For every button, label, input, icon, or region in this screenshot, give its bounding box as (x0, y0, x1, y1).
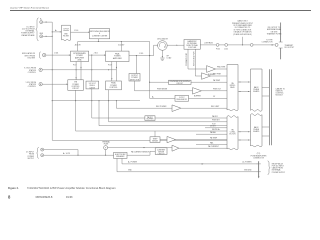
wire route rev line (116, 101, 172, 109)
wire circulator to load (161, 50, 163, 56)
wire route pcv line (92, 101, 145, 118)
PA interface connector upper (227, 65, 238, 111)
svg-text:PA CURRENT: PA CURRENT (208, 145, 219, 148)
svg-text:68P81085E35-B: 68P81085E35-B (36, 197, 53, 199)
svg-text:AMPLIFIER: AMPLIFIER (113, 57, 123, 60)
svg-text:CONTROL: CONTROL (109, 87, 117, 89)
svg-text:DETECTOR: DETECTOR (130, 79, 140, 81)
connector 9.3V (39, 68, 42, 71)
svg-text:POWER SUPPLY: POWER SUPPLY (272, 172, 286, 174)
svg-text:ECTOR: ECTOR (230, 134, 237, 136)
temperature sense (150, 81, 169, 83)
wire circulator to coupler (167, 44, 184, 46)
junction (52, 31, 53, 32)
svg-text:COUPLER: COUPLER (188, 47, 197, 49)
bracket bottom-left (37, 147, 39, 158)
wire to EMI filter (52, 31, 61, 33)
key buffer box (145, 116, 155, 121)
svg-text:SENSE: SENSE (152, 140, 159, 142)
wire PCV box down (75, 90, 77, 100)
node: 9.3V input (24, 68, 37, 74)
bulkhead RF output (280, 23, 282, 43)
wire route 9.3v line (99, 101, 227, 126)
svg-text:FILTER: FILTER (63, 36, 69, 38)
svg-text:CONTROL: CONTROL (28, 86, 36, 88)
9.3V bus wire (42, 69, 116, 71)
svg-text:BOARD: BOARD (253, 130, 260, 133)
svg-text:VIA BACKPLANE: VIA BACKPLANE (21, 34, 35, 37)
wire breaker out (127, 151, 155, 155)
wire detector to buffer (135, 81, 193, 91)
op-amp current buffer (172, 145, 179, 151)
svg-text:REFLECTED PWR: REFLECTED PWR (194, 51, 196, 66)
wire RF input to IPA (46, 54, 71, 56)
op-amp fwd buffer (207, 66, 216, 73)
svg-text:J 100: J 100 (74, 30, 78, 32)
svg-text:A+: A+ (152, 95, 154, 98)
svg-text:GROUND: GROUND (244, 170, 252, 172)
svg-text:CURRENT LIMITER: CURRENT LIMITER (92, 35, 108, 37)
wire to thermal fuse (105, 150, 107, 156)
svg-text:(IPA): (IPA) (78, 59, 82, 62)
connector GND in (41, 154, 44, 157)
cable note (232, 20, 253, 36)
wire IPA bias drops (75, 62, 77, 80)
svg-text:RF OUTPUT: RF OUTPUT (285, 47, 295, 49)
svg-text:FAIL: FAIL (210, 141, 214, 144)
output power detector (129, 74, 140, 82)
svg-text:CIRCUIT: CIRCUIT (158, 153, 165, 155)
wire dc main (44, 154, 114, 156)
svg-text:FWD PWR: FWD PWR (217, 67, 226, 69)
wire route pwr set line (109, 101, 227, 122)
wire route key line (76, 101, 227, 131)
node: RF input label (22, 52, 36, 59)
op-amp rev buffer (202, 73, 211, 80)
svg-text:BUFFER: BUFFER (147, 119, 155, 121)
svg-text:A 13.8V: A 13.8V (75, 44, 82, 47)
svg-text:A+ POWER: A+ POWER (243, 161, 253, 164)
RF load (160, 57, 164, 59)
junction (46, 22, 47, 23)
supply rail 13.8V (78, 42, 150, 99)
connector J1 pin A+ (40, 21, 43, 24)
wire rail to final (120, 42, 122, 52)
inline connector (250, 44, 253, 47)
wire A+ power run (122, 158, 257, 164)
svg-text:J 305: J 305 (139, 53, 143, 55)
bracket RF input (40, 52, 41, 59)
junction (91, 55, 92, 56)
svg-text:J102: J102 (224, 48, 228, 50)
wire to bulkhead (228, 44, 275, 46)
svg-text:REGULATOR: REGULATOR (177, 98, 188, 101)
junction (46, 36, 47, 37)
svg-text:SUPPLY: SUPPLY (27, 158, 34, 160)
junction (136, 55, 137, 56)
svg-text:PA KEY: PA KEY (212, 115, 219, 118)
connector A+ in (41, 148, 44, 151)
svg-text:CONNECTOR: CONNECTOR (262, 42, 274, 44)
wire from GND pin (43, 35, 53, 37)
svg-text:Quantar VHF Station Functional: Quantar VHF Station Functional Manual (10, 6, 49, 9)
op-amp pcv buffer (193, 88, 202, 95)
svg-text:LOAD: LOAD (167, 57, 172, 60)
wire coupler out (200, 44, 216, 46)
header rule (10, 10, 311, 12)
svg-text:PA TEMP: PA TEMP (213, 79, 221, 82)
svg-text:5V KEY: 5V KEY (210, 126, 217, 128)
node: PA connector label (251, 153, 267, 159)
connector at bulkhead (275, 43, 278, 46)
final power control (106, 81, 122, 90)
wire from A+ pin (43, 21, 53, 23)
wires backplane to bulkhead (262, 87, 269, 89)
wire regulator output (97, 39, 99, 42)
node: receptacle label (268, 161, 271, 175)
regulator U100 (90, 29, 110, 39)
svg-text:BOARD: BOARD (253, 90, 260, 93)
wires interface to backplane (238, 81, 251, 83)
svg-text:P102: P102 (216, 48, 220, 50)
wire fan row (196, 143, 227, 145)
svg-text:MODULE: MODULE (276, 95, 284, 97)
wire ground run (117, 158, 257, 171)
wire pa fail row (196, 133, 227, 135)
svg-text:PWR OUT: PWR OUT (213, 89, 221, 91)
svg-text:LATOR: LATOR (90, 86, 96, 89)
svg-text:PA FAIL: PA FAIL (210, 131, 216, 134)
node: DC input label top-left (21, 26, 35, 36)
svg-text:EXCITER: EXCITER (28, 57, 36, 59)
bracket top-left (36, 18, 39, 41)
svg-text:F: F (105, 147, 106, 149)
temp sense box (150, 137, 160, 143)
wire A+ in (44, 150, 78, 156)
op-amp temp buffer (167, 136, 176, 142)
svg-text:LOW PASS: LOW PASS (204, 41, 214, 44)
connector 5V (39, 83, 42, 86)
svg-text:(25 AND 40W MODELS): (25 AND 40W MODELS) (233, 33, 252, 36)
svg-text:A+ POWER: A+ POWER (128, 161, 138, 164)
5 volt regulator (150, 97, 175, 99)
wire interstage tap (91, 55, 93, 81)
svg-text:A+: A+ (55, 29, 57, 32)
wire 5V to PCV box (42, 83, 68, 85)
op-amp rev limiter (172, 105, 181, 112)
connector RF input (43, 53, 46, 56)
connector J1 pin GND (40, 35, 43, 38)
current sense box (155, 148, 167, 155)
svg-text:PA CURRENT SENSOR: PA CURRENT SENSOR (131, 151, 150, 154)
junction (52, 36, 53, 37)
PA interface connector lower (227, 116, 238, 150)
svg-text:REV PWR: REV PWR (213, 74, 222, 76)
control bus (52, 100, 140, 102)
cable note pointer (242, 37, 244, 45)
fwd rev taps from coupler (187, 49, 189, 69)
svg-text:CONNECTOR: CONNECTOR (253, 157, 265, 159)
svg-text:J 301: J 301 (94, 53, 98, 55)
svg-text:BREAKER: BREAKER (116, 155, 125, 158)
wire final ctl down (108, 90, 110, 101)
svg-text:KEYED A+: KEYED A+ (212, 128, 220, 131)
svg-text:PA TEMP: PA TEMP (210, 136, 218, 139)
IPA power control (68, 80, 84, 91)
final amplifier (106, 51, 129, 61)
vertical DC bus wire (52, 22, 227, 140)
svg-text:CIRCULATOR: CIRCULATOR (157, 38, 169, 41)
wire final bias drops (111, 62, 113, 82)
svg-text:TRANSMIT FILTER: TRANSMIT FILTER (267, 33, 283, 36)
RF output label (267, 27, 283, 36)
svg-text:A+ 14.2V: A+ 14.2V (63, 152, 71, 155)
svg-text:CIRCUIT: CIRCUIT (72, 88, 79, 90)
backplane board lower (251, 114, 263, 147)
wire final output (129, 45, 158, 55)
svg-text:A 13.8V: A 13.8V (118, 44, 125, 47)
wire to detector (135, 56, 137, 74)
wire fuse line (108, 147, 167, 149)
node: backplane cable label (276, 87, 286, 96)
svg-text:Figure 4.: Figure 4. (8, 186, 19, 190)
EMI filter FL1 (62, 25, 71, 41)
svg-text:J 304: J 304 (54, 53, 58, 55)
svg-text:CONTROL: CONTROL (28, 72, 36, 74)
svg-text:CIRCUIT: CIRCUIT (176, 83, 183, 85)
svg-text:9/1/98: 9/1/98 (66, 197, 73, 199)
harmonic filter / coupler (184, 40, 200, 50)
svg-text:PWR SET: PWR SET (212, 120, 220, 122)
junction (98, 41, 99, 42)
connector pair P102 (216, 44, 219, 47)
backplane board upper (251, 69, 263, 111)
IPA amplifier (71, 51, 89, 61)
wire 9.3V reg down (91, 89, 93, 101)
dc receptacle pins (258, 161, 260, 176)
svg-text:A+: A+ (40, 18, 42, 21)
junction (121, 41, 122, 42)
svg-text:TLD3101/TLD3102 125W Power Amp: TLD3101/TLD3102 125W Power Amplifier Mod… (27, 186, 116, 190)
wire keyed 9.6 row (205, 127, 227, 129)
bulkhead backplane (269, 69, 271, 145)
svg-text:REV POWER: REV POWER (156, 106, 167, 108)
wire filter to regulator (71, 31, 90, 33)
junction (242, 44, 243, 45)
node: 5V input (26, 82, 37, 88)
svg-text:PWR SENSE: PWR SENSE (157, 89, 168, 91)
svg-text:FORWARD PWR: FORWARD PWR (185, 52, 188, 66)
node: DC input bottom-left (26, 152, 35, 160)
circuit breaker box (114, 152, 127, 158)
9.3V regulator (86, 81, 99, 89)
svg-text:REV LIMIT: REV LIMIT (211, 106, 219, 108)
wire IPA to final (89, 54, 106, 56)
svg-text:BUFFER: BUFFER (194, 96, 202, 98)
